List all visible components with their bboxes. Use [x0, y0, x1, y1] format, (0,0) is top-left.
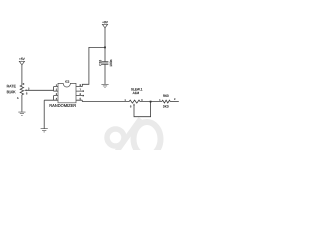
- svg-text:RATE: RATE: [7, 84, 17, 88]
- svg-text:IC2: IC2: [65, 79, 70, 83]
- svg-text:RANDOMIZER: RANDOMIZER: [49, 103, 76, 108]
- svg-text:3K3: 3K3: [163, 105, 169, 109]
- svg-text:R63: R63: [163, 94, 169, 98]
- svg-text:A1M: A1M: [133, 91, 140, 95]
- svg-text:+5V: +5V: [19, 57, 26, 61]
- svg-text:C16: C16: [98, 60, 102, 66]
- svg-text:+9V: +9V: [102, 20, 109, 24]
- svg-text:B10K: B10K: [7, 90, 17, 94]
- svg-text:100n: 100n: [109, 59, 113, 66]
